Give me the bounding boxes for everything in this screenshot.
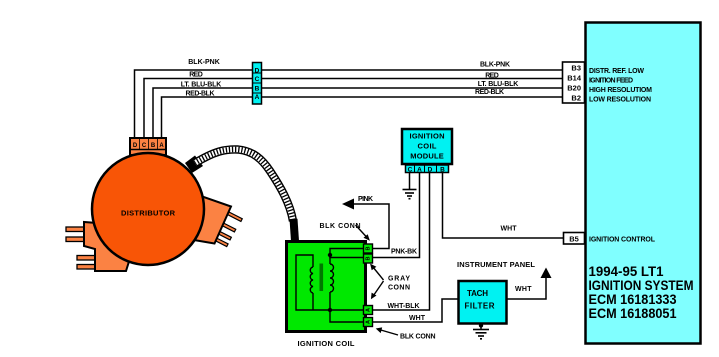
svg-text:B20: B20	[567, 84, 581, 93]
svg-text:BLK-PNK: BLK-PNK	[188, 59, 220, 66]
svg-text:COIL: COIL	[418, 142, 437, 151]
svg-text:B: B	[440, 167, 445, 174]
svg-text:RED: RED	[189, 72, 203, 79]
svg-text:WHT: WHT	[515, 286, 532, 293]
svg-text:RED-BLK: RED-BLK	[475, 89, 504, 96]
svg-text:MODULE: MODULE	[410, 152, 444, 161]
junction node (tach ground)	[479, 323, 483, 327]
coil secondary winding L2	[330, 249, 364, 323]
ECM pin B5	[564, 233, 585, 245]
wire WHT module pin B to ECM B5	[443, 173, 564, 239]
svg-text:RED-BLK: RED-BLK	[186, 91, 215, 98]
wire WHT tach filter to instrument panel	[507, 277, 547, 299]
cable end cap at distributor	[185, 156, 203, 174]
ECM pin block B3/B14/B20/B2	[563, 62, 585, 103]
coil terminal tab B (top, to PINK)	[364, 244, 373, 253]
wire PINK from coil tab	[347, 204, 389, 249]
svg-text:LOW RESOLUTION: LOW RESOLUTION	[589, 97, 651, 104]
distributor top connector block D C B A	[130, 138, 166, 155]
svg-text:BLK CONN: BLK CONN	[320, 223, 361, 230]
svg-text:B: B	[366, 246, 372, 250]
wire RED (distributor C to ECM B14)	[144, 79, 563, 139]
svg-text:DISTR. REF. LOW: DISTR. REF. LOW	[589, 68, 644, 75]
svg-text:A: A	[255, 94, 260, 101]
wire WHT-BLK coil tab to module pin D	[373, 173, 430, 311]
arrow PINK	[342, 199, 354, 210]
svg-text:C: C	[408, 167, 413, 174]
ECM module block U1	[586, 23, 701, 344]
svg-text:B2: B2	[571, 94, 581, 103]
distributor right connector with prongs	[185, 196, 242, 247]
svg-text:IGNITION COIL: IGNITION COIL	[298, 339, 355, 348]
svg-text:C: C	[142, 143, 147, 149]
svg-text:INSTRUMENT PANEL: INSTRUMENT PANEL	[457, 260, 535, 269]
svg-text:FILTER: FILTER	[465, 302, 495, 311]
svg-text:B: B	[151, 143, 156, 149]
label BLK CONN (top) with arrow	[320, 223, 370, 241]
coil primary winding L1	[296, 255, 330, 310]
wire WHT coil tab to tach filter	[373, 299, 459, 322]
ground (tach filter)	[473, 330, 489, 339]
svg-text:A: A	[366, 320, 372, 324]
wire module pin C to ground	[409, 173, 411, 190]
module pin strip C A D B	[406, 165, 449, 174]
wire tach filter to ground	[480, 324, 482, 330]
svg-text:IGNITION FEED: IGNITION FEED	[589, 78, 633, 85]
label BLK CONN (bottom) with arrow	[376, 327, 436, 340]
coil terminal tab A (to WHT)	[364, 318, 373, 327]
svg-text:WHT: WHT	[501, 226, 518, 233]
svg-text:PNK-BK: PNK-BK	[391, 249, 417, 256]
tach filter U3	[459, 281, 507, 324]
coil terminal tab B (second, to PNK-BK)	[364, 254, 373, 263]
svg-text:B: B	[366, 256, 372, 260]
svg-text:A: A	[159, 143, 164, 149]
svg-text:BLK-PNK: BLK-PNK	[480, 62, 510, 69]
svg-text:ECM 16188051: ECM 16188051	[589, 306, 677, 321]
svg-text:IGNITION CONTROL: IGNITION CONTROL	[589, 237, 656, 244]
coil core	[320, 264, 324, 292]
wire RED-BLK (distributor A to ECM B2)	[162, 97, 563, 138]
svg-text:D: D	[133, 143, 138, 149]
svg-text:GRAY: GRAY	[388, 276, 410, 283]
distributor body	[92, 153, 204, 265]
svg-text:B14: B14	[567, 74, 582, 83]
svg-text:LT. BLU-BLK: LT. BLU-BLK	[181, 82, 222, 89]
svg-text:1994-95 LT1: 1994-95 LT1	[589, 264, 664, 279]
ignition coil module U2	[402, 129, 452, 164]
ignition coil T1 body	[287, 242, 366, 332]
ECM pin labels	[589, 68, 652, 104]
arrow to instrument panel	[541, 268, 552, 279]
wire PNK-BK coil tab to module pin A	[373, 173, 420, 258]
svg-text:IGNITION: IGNITION	[410, 132, 445, 141]
svg-text:D: D	[428, 167, 433, 174]
svg-text:DISTRIBUTOR: DISTRIBUTOR	[121, 209, 176, 218]
svg-text:ECM 16181333: ECM 16181333	[589, 292, 677, 307]
svg-text:A: A	[417, 167, 422, 174]
svg-text:LT. BLU-BLK: LT. BLU-BLK	[478, 81, 519, 88]
svg-text:D: D	[255, 67, 260, 74]
svg-text:TACH: TACH	[467, 289, 488, 298]
svg-text:PINK: PINK	[358, 196, 373, 203]
svg-text:A: A	[366, 308, 372, 312]
shielded cable to ignition coil	[195, 149, 295, 241]
inline connector D/C/B/A	[253, 63, 262, 105]
svg-text:C: C	[255, 76, 260, 83]
ground (module)	[403, 190, 417, 199]
coil terminal tab A (to WHT-BLK)	[364, 306, 373, 315]
svg-text:B: B	[255, 85, 260, 92]
svg-text:BLK CONN: BLK CONN	[400, 334, 436, 341]
svg-text:HIGH RESOLUTIOM: HIGH RESOLUTIOM	[589, 87, 652, 94]
svg-text:CONN: CONN	[388, 285, 410, 292]
wire LT. BLU-BLK (distributor B to ECM B20)	[153, 88, 563, 138]
junction node (coil top)	[328, 253, 332, 257]
svg-text:IGNITION SYSTEM: IGNITION SYSTEM	[589, 278, 694, 293]
junction node (coil bottom)	[328, 308, 332, 312]
svg-text:B3: B3	[571, 64, 581, 73]
svg-text:B5: B5	[569, 235, 579, 244]
svg-text:RED: RED	[485, 73, 499, 80]
distributor left connector with prongs	[66, 222, 132, 271]
label GRAY CONN with arrows	[370, 264, 410, 300]
ECM title text	[589, 264, 694, 321]
wire BLK-PNK (distributor D to ECM B3)	[135, 70, 563, 138]
svg-text:WHT: WHT	[409, 315, 426, 322]
svg-text:WHT-BLK: WHT-BLK	[388, 303, 420, 310]
